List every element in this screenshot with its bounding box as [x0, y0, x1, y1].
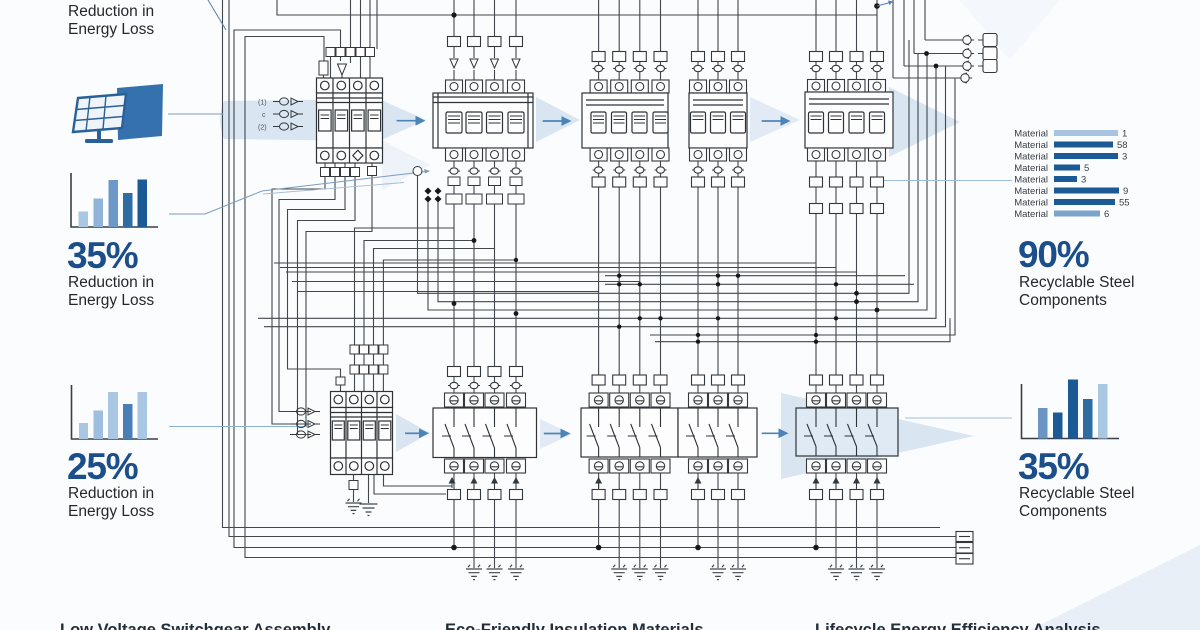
breaker B1 (row1, 4-pole MCB) [317, 78, 383, 163]
wire R2 bottom pole4 east to box1 [384, 475, 453, 487]
wire box3 bottom poles to grounds [836, 500, 877, 569]
wire R2 pole2 to box to ground [353, 475, 355, 503]
wire right component row 2 [914, 53, 983, 55]
svg-text:5: 5 [1084, 163, 1089, 174]
wire material chart connector [877, 180, 1012, 182]
BOTTOM [60, 621, 1101, 630]
wire B3b bottom stems [698, 161, 738, 178]
wire B1 top drops [351, 0, 378, 49]
ground G7 [710, 565, 726, 580]
flow arrow A4 (after B4, row 1, large) [889, 87, 960, 157]
switch box2b (row2 disconnect) [678, 375, 757, 500]
corner tint top-right above B4 [960, 0, 1060, 60]
svg-text:35%: 35% [1018, 446, 1089, 487]
wire d1 right riser to B2-left cluster [418, 40, 910, 293]
ground G8 [730, 565, 746, 580]
breaker B2 (row1 MCCB 4-pole) [433, 80, 533, 161]
svg-text:Material: Material [1014, 152, 1048, 163]
tint behind B1 lower-right [382, 140, 430, 190]
ground G6 [653, 565, 669, 580]
wire 25% chart connector [169, 426, 307, 428]
flow arrow A6 (between box1 and box2, row 2) [540, 419, 572, 449]
node top B4 pole4 [874, 3, 880, 9]
svg-text:Energy Loss: Energy Loss [68, 21, 154, 38]
wire d3 [428, 54, 927, 311]
wire d6 [650, 78, 955, 335]
wire cascade a5 [306, 176, 372, 427]
RIGHTCOL [1014, 129, 1134, 521]
wire box bottoms strips to squares [454, 473, 877, 490]
wire B2 pole drops from top [454, 0, 516, 37]
wire box3 bottom pole1 to bus [815, 500, 817, 548]
node 619.2/275.7 [617, 274, 621, 278]
flow arrow A5 (after breaker R2, row 2) [396, 414, 430, 452]
wire box1 risers from B2 [454, 204, 516, 367]
svg-text:Material: Material [1014, 209, 1048, 220]
wire box2a risers from B3 [599, 187, 661, 375]
node 619.2/326.7 [617, 325, 621, 329]
wire top-right blue arrow [877, 3, 890, 7]
svg-text:Recyclable Steel: Recyclable Steel [1019, 485, 1134, 502]
wire R2 top box stubs [355, 354, 384, 392]
wire right component row 4 [893, 77, 958, 79]
wire B1 bottom stems [325, 163, 372, 167]
flow arrow box1 to box2a [544, 433, 562, 435]
wire m3 [286, 271, 857, 273]
node 856.5/293.3 [854, 291, 859, 296]
node 836/284.3 [834, 282, 838, 286]
svg-text:Material: Material [1014, 140, 1048, 151]
wire cascade a3 B1 to fuse R2 [288, 177, 346, 377]
svg-text:Components: Components [1019, 292, 1107, 309]
LEFTCOL [67, 3, 163, 520]
wire right component row 3 [904, 65, 983, 67]
wire R2 bottom second east line [374, 475, 446, 495]
breaker R2 accessories [336, 345, 388, 490]
wire box2b bottom pole1 to bus [697, 500, 699, 548]
wire right component row 1 [925, 39, 983, 41]
flow arrow A1 (behind breaker B1, row 1) [220, 94, 426, 146]
node 660.5/318.3 [658, 316, 662, 320]
svg-text:Eco-Friendly Insulation Materi: Eco-Friendly Insulation Materials [445, 621, 704, 630]
breaker R2 (row2 4-pole MCB) [331, 392, 393, 475]
breaker B3 accessories [592, 52, 667, 188]
wire box tops squares to strips [454, 377, 877, 394]
dark flow arrows [397, 116, 791, 439]
wire cascade a4 B1 to contact row3 [298, 177, 356, 435]
wire m4 [292, 281, 640, 283]
svg-text:Reduction in: Reduction in [68, 3, 154, 20]
wire box2a bottom poles to grounds [619, 500, 660, 569]
svg-text:Material: Material [1014, 129, 1048, 140]
svg-text:90%: 90% [1018, 234, 1089, 275]
ground G9 [828, 565, 844, 580]
wire d4 [258, 66, 936, 318]
svg-text:35%: 35% [67, 235, 138, 276]
wire B3 bottom stems [599, 161, 661, 178]
flow arrow B2 to B3 [543, 120, 563, 122]
svg-text:3: 3 [1122, 152, 1127, 163]
wire frame-4 from B1 fuse around to bus 4 [245, 37, 956, 558]
node top B2 pole1 [451, 12, 456, 17]
node 856.5/301.7 [854, 299, 859, 304]
contact row B1 left [258, 98, 303, 132]
contact row R2 left [290, 408, 320, 438]
ground G1 [466, 565, 482, 580]
wire B4 pole drops from top [816, 0, 877, 52]
wire h275 [605, 275, 905, 277]
wire B4 bottom stems [816, 161, 877, 204]
ground under R2 pole2 [346, 499, 362, 514]
breaker B1 top accessories [319, 48, 375, 76]
svg-text:Lifecycle Energy Efficiency An: Lifecycle Energy Efficiency Analysis [815, 621, 1101, 630]
flow arrow A2 (between B2 and B3, row 1) [536, 97, 580, 142]
flow arrow A7 (large, behind box3, row 2) [781, 393, 974, 479]
svg-text:(1): (1) [258, 100, 267, 107]
node 698/341.7 [696, 340, 700, 344]
bar chart icon 35% right [1022, 380, 1120, 439]
corner tint bottom-right [1030, 545, 1200, 630]
bar chart icon 35% [71, 173, 158, 227]
wire m1 long horizontal [274, 262, 816, 264]
svg-text:6: 6 [1104, 209, 1109, 220]
node 718/284.3 [716, 282, 720, 286]
svg-text:Material: Material [1014, 198, 1048, 209]
node bus box1 [451, 545, 457, 551]
wire 35% secondary diagonal [263, 183, 404, 195]
wire box2b risers from B3b [698, 187, 738, 375]
solar panel icon [73, 84, 163, 143]
ground G10 [849, 565, 865, 580]
node 698/335 [696, 333, 700, 337]
wire R2 riser r4 [383, 260, 516, 346]
ground G5 [632, 565, 648, 580]
wire R2 riser r3 [374, 249, 495, 346]
wire box3 to chart connector [905, 417, 1012, 419]
node 877/310 [875, 308, 880, 313]
wire R2 riser r1 to B2 pole1 [355, 228, 455, 346]
blue connector lines [168, 0, 1012, 427]
svg-text:Energy Loss: Energy Loss [68, 292, 154, 309]
node bus box2b [695, 545, 701, 551]
ground G2 [487, 565, 503, 580]
node bus box3 [813, 545, 819, 551]
node 639.8/318.3 [638, 316, 642, 320]
switch box1 (row2 disconnect) [433, 367, 537, 500]
svg-text:55: 55 [1119, 198, 1130, 209]
flow arrow box2b to box3 [762, 432, 780, 434]
ground G3 [508, 565, 524, 580]
node 936/66 [934, 64, 939, 69]
svg-text:3: 3 [1081, 175, 1086, 186]
breaker B2 accessories [413, 37, 524, 205]
wire box3 risers from B4 [816, 214, 877, 376]
svg-text:58: 58 [1117, 140, 1128, 151]
wire B3 B3b B4 top stems [599, 61, 877, 80]
right component rows (CT + terminal blocks) [958, 34, 997, 84]
breaker B3b (row1 3-pole) [689, 80, 747, 161]
node 926.5/53.5 [924, 51, 929, 56]
wire solar icon connector [168, 113, 223, 115]
wire frame-2 loop to bottom bus 2 [229, 0, 956, 537]
wire B2 top stems [454, 46, 516, 80]
node r4/516 [514, 258, 518, 262]
svg-text:Material: Material [1014, 186, 1048, 197]
svg-text:Recyclable Steel: Recyclable Steel [1019, 274, 1134, 291]
ground under R2 pole3 [360, 504, 378, 516]
wire box1 bottom poles to grounds [474, 500, 516, 569]
wire m5 [298, 291, 599, 293]
breaker B4 accessories [810, 52, 884, 214]
wire B2 bottom stems [454, 161, 516, 194]
breaker B4 (row1 4-pole) [805, 80, 893, 162]
wire B3b pole drops from top [698, 0, 738, 52]
node 718/275.7 [716, 274, 720, 278]
svg-text:Energy Loss: Energy Loss [68, 503, 154, 520]
flow arrow B3b to B4 [762, 120, 782, 122]
wire top-left diagonal [208, 0, 226, 30]
wire B3 pole drops from top [599, 0, 661, 52]
node 816/335 [814, 333, 818, 337]
bar chart icon 25% [72, 385, 159, 439]
wire frame-3 from B1 top box down left around to bus 3 [234, 30, 956, 548]
arrowhead for 35% connector [424, 169, 430, 174]
breaker B1 bottom accessories [321, 167, 377, 177]
breaker B3 (row1 4-pole) [582, 80, 669, 161]
node 619.2/284.3 [617, 282, 621, 286]
svg-text:Material: Material [1014, 175, 1048, 186]
node diamond cluster [425, 188, 442, 203]
switch box3 (row2 disconnect, highlighted) [796, 375, 898, 500]
node r2/474 [472, 238, 477, 243]
wire R2 pole3 to ground [368, 475, 370, 504]
wire m2 [280, 267, 836, 269]
flow arrow A3 (between B3b and B4, row 1) [750, 97, 800, 142]
wire B1 top accessory stems [324, 57, 371, 78]
svg-text:9: 9 [1123, 186, 1128, 197]
svg-text:(2): (2) [258, 125, 267, 132]
switch box2a (row2 disconnect) [581, 375, 678, 500]
node 454/303.5 [452, 301, 457, 306]
right bottom connector blocks [956, 532, 973, 565]
wire d7 bottom of staircase [655, 318, 950, 341]
svg-text:Low Voltage Switchgear Assembl: Low Voltage Switchgear Assembly [60, 621, 331, 630]
node 836/318.3 [834, 316, 838, 320]
svg-text:Components: Components [1019, 503, 1107, 520]
flow arrow R2 to box1 [405, 432, 420, 434]
svg-text:1: 1 [1122, 129, 1127, 140]
node bus box2a [596, 545, 602, 551]
wire 35% chart connector [169, 172, 426, 215]
wire d2 [438, 54, 918, 302]
svg-text:25%: 25% [67, 446, 138, 487]
wire top bus y15 [277, 0, 877, 15]
material bar chart [1014, 129, 1129, 221]
ground G11 [869, 565, 885, 580]
flow arrow B1 to B2 [397, 120, 417, 122]
wire d5 [264, 66, 946, 327]
node 816/341.7 [814, 340, 818, 344]
node 516/313.5 [514, 311, 519, 316]
wire R2 fuse stem [340, 385, 342, 392]
wire frame-1 left outer loop to bottom bus [223, 0, 941, 528]
svg-text:Reduction in: Reduction in [68, 274, 154, 291]
svg-text:Material: Material [1014, 163, 1048, 174]
wire h284 [605, 283, 914, 285]
wire box1 bottom pole1 to bus [453, 500, 455, 548]
wire cascade a1 B1 to contact row2 [272, 177, 325, 424]
node 738/275.7 [736, 274, 740, 278]
wire cascade a2 B1 to contact row1 [279, 177, 335, 412]
wire R2 riser r2 [364, 241, 474, 346]
breaker B3b accessories [692, 52, 745, 188]
svg-text:c: c [262, 112, 266, 119]
node 639.8/284.3 [638, 282, 642, 286]
wire right riser drops [893, 0, 925, 78]
wire box2b bottom poles to grounds [718, 500, 738, 569]
ground G4 [611, 565, 627, 580]
wire box2a bottom pole1 to bus [598, 500, 600, 548]
svg-text:Reduction in: Reduction in [68, 485, 154, 502]
node 718/318.3 [716, 316, 720, 320]
